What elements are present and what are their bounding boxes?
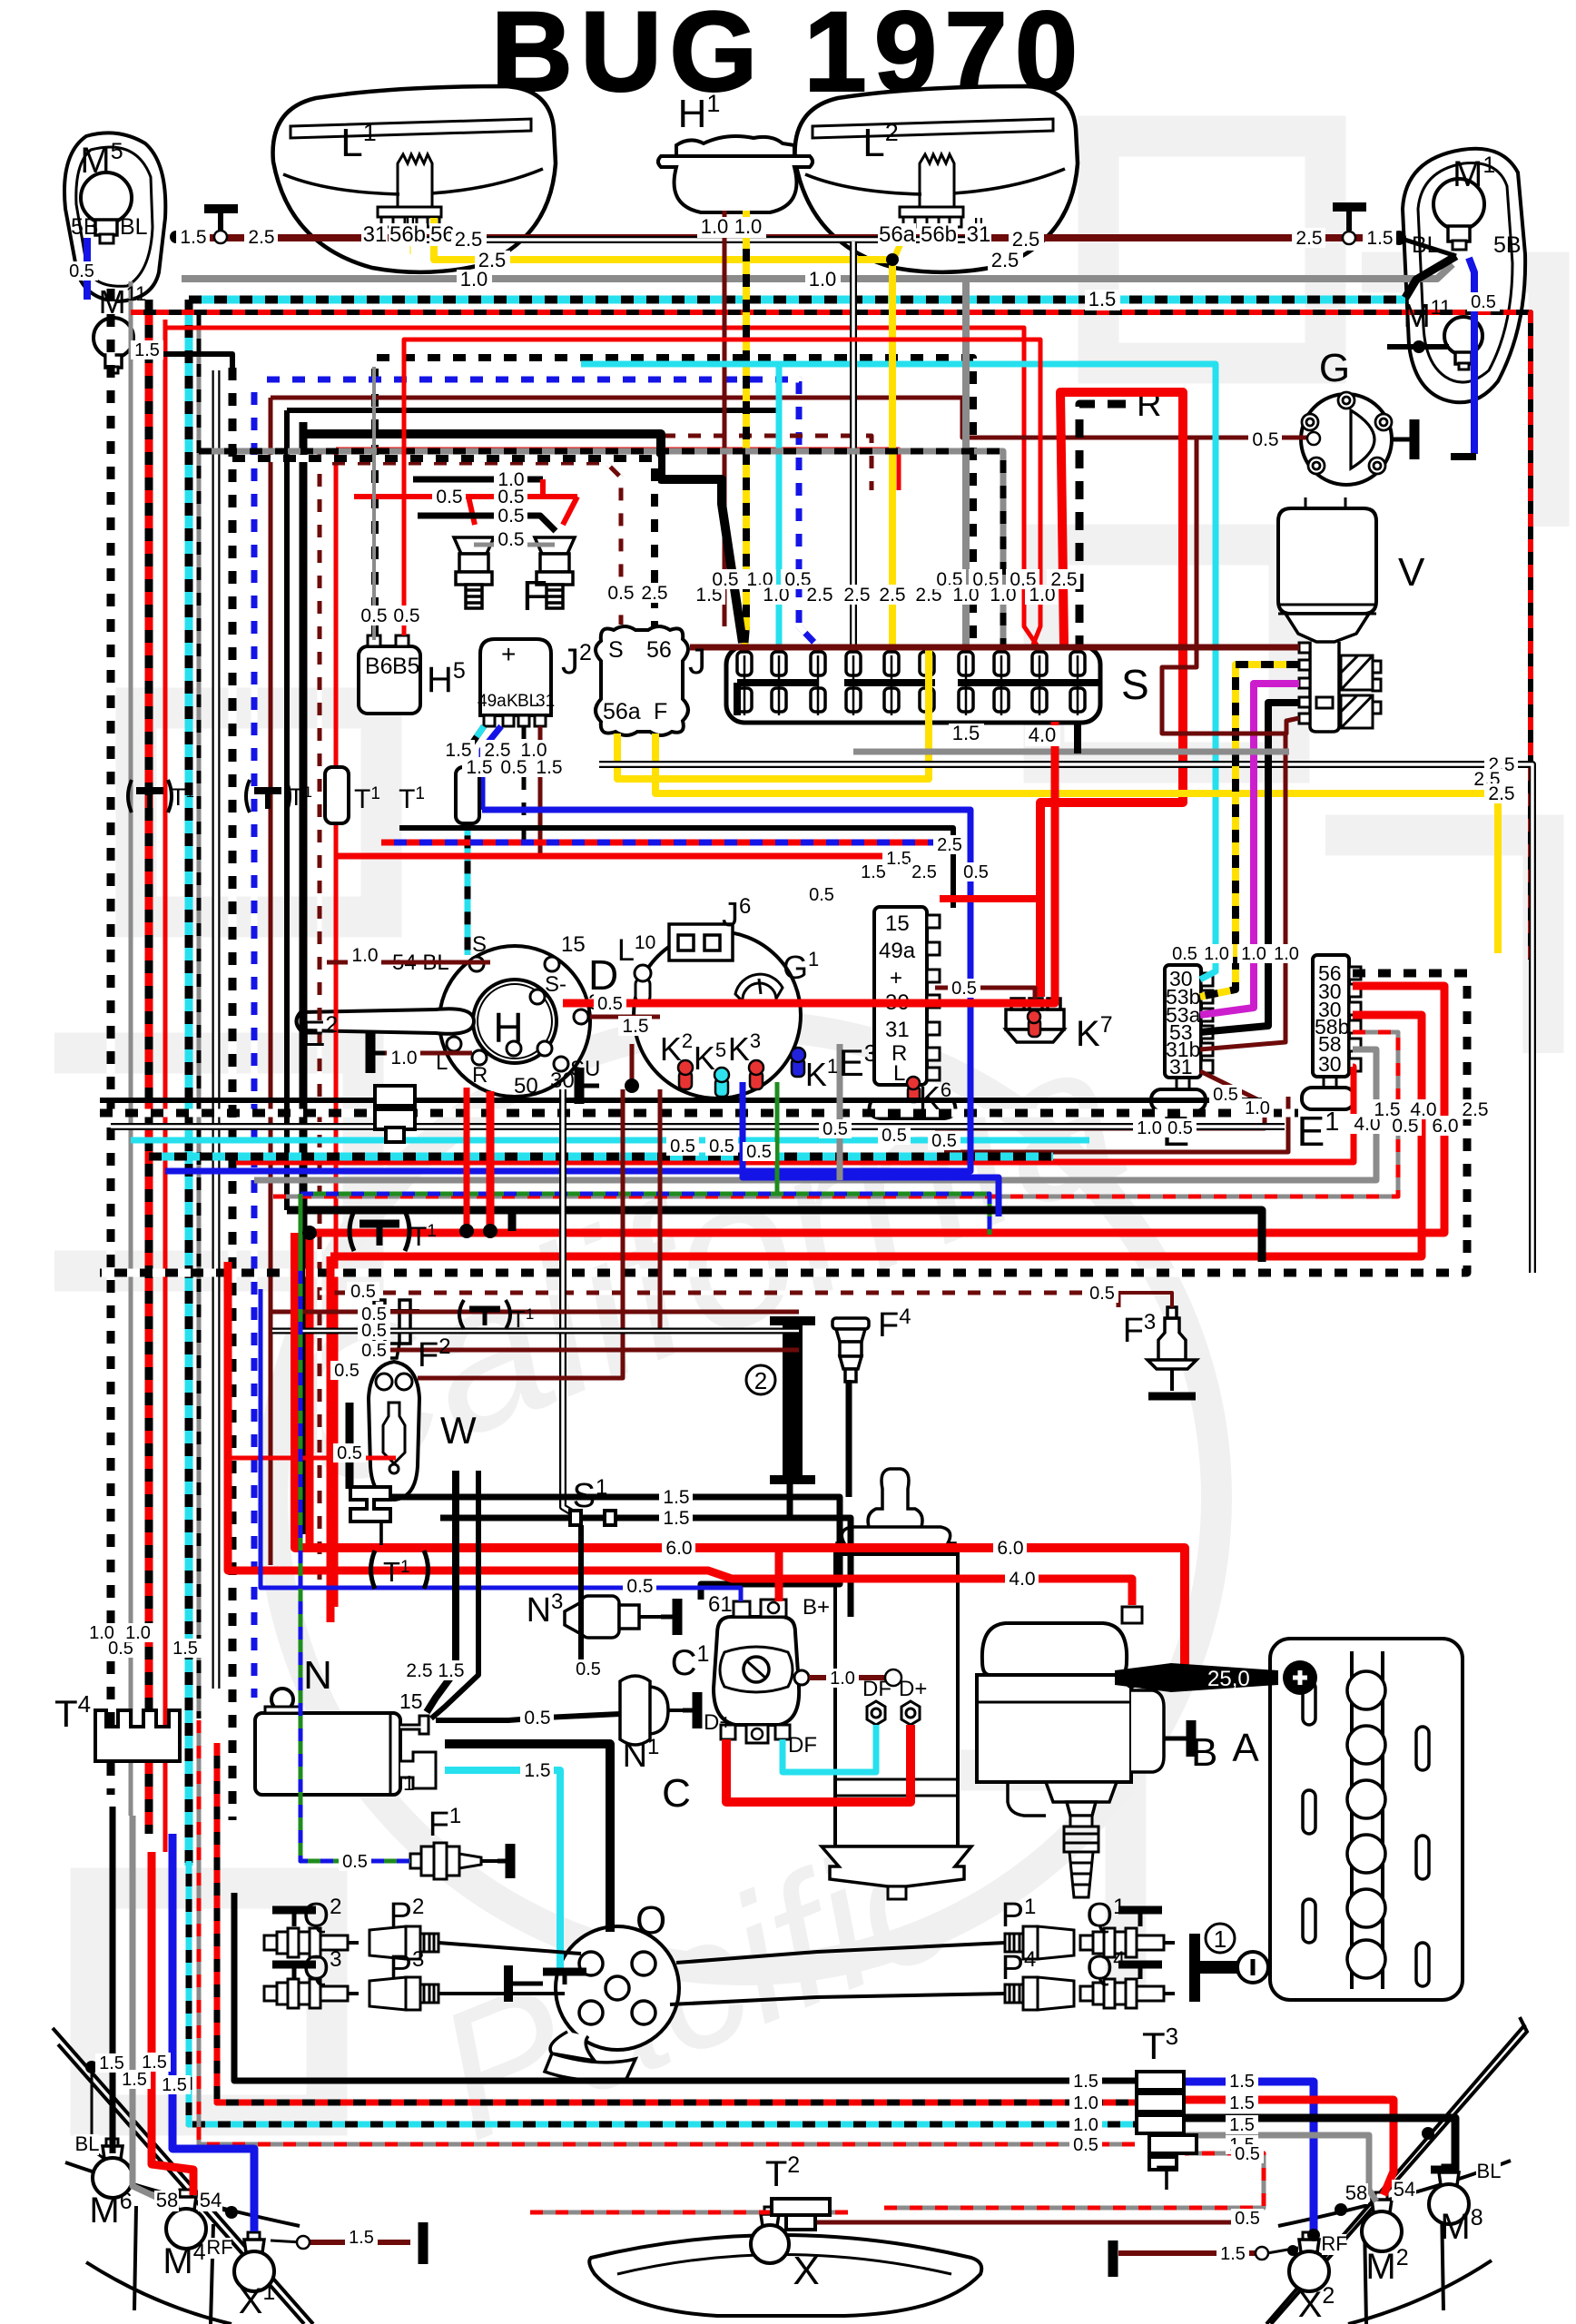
svg-text:RF: RF xyxy=(206,2236,232,2259)
svg-text:N: N xyxy=(303,1653,332,1698)
turn signal M5 housing xyxy=(64,133,165,301)
wire maroon lever E2 xyxy=(385,1051,472,1056)
svg-text:1.0: 1.0 xyxy=(1073,2093,1098,2113)
svg-text:2.5: 2.5 xyxy=(641,583,667,604)
wire red trunk left 2 xyxy=(334,449,339,1607)
generator terminals DF D+ xyxy=(867,1701,920,1725)
washer valve W xyxy=(369,1362,419,1500)
svg-text:1.5: 1.5 xyxy=(438,1660,464,1681)
svg-text:S: S xyxy=(472,932,487,957)
wire cyan/black trunk left xyxy=(185,300,193,1866)
svg-text:BL: BL xyxy=(1477,2160,1502,2182)
wire gray trunk left xyxy=(129,281,133,1816)
wire black M11 bottom hook xyxy=(1451,453,1476,460)
wire gray from G1 gauge xyxy=(837,1044,843,1180)
wire cyan C1 DF to C DF xyxy=(783,1725,876,1772)
wire maroon bottom right ground xyxy=(1118,2250,1258,2256)
svg-text:2.5: 2.5 xyxy=(248,227,274,248)
wire black S1 run 1.5 xyxy=(440,1518,851,1617)
svg-text:56b: 56b xyxy=(389,222,426,247)
svg-text:30: 30 xyxy=(1318,1052,1342,1076)
wire maroon from E 31 b xyxy=(944,1097,1288,1152)
oil pressure switch F1 xyxy=(410,1843,497,1879)
wire maroon to F2 area xyxy=(271,1310,799,1315)
svg-text:F: F xyxy=(522,572,547,619)
left rear fender outline xyxy=(53,2028,313,2324)
svg-text:1.0: 1.0 xyxy=(1241,944,1266,964)
svg-text:2.5: 2.5 xyxy=(1012,228,1040,251)
wire yellow from J 56a down xyxy=(617,648,929,779)
wire maroon G to V pin5 xyxy=(1162,438,1299,734)
svg-text:0.5: 0.5 xyxy=(69,261,94,281)
svg-text:1.5: 1.5 xyxy=(1088,288,1117,310)
wire gray jumper between F switches xyxy=(474,543,555,547)
svg-text:2.5: 2.5 xyxy=(406,1660,432,1681)
ignition light switch D with H xyxy=(439,946,590,1097)
turn signal M1 housing xyxy=(1403,149,1525,403)
wire white mid band xyxy=(111,1123,1285,1130)
wire black coil HT to distributor xyxy=(445,1744,610,1932)
svg-text:2.5: 2.5 xyxy=(937,835,962,855)
wire red rear right xyxy=(1185,2100,1394,2195)
svg-text:0.5: 0.5 xyxy=(342,1852,368,1872)
wire white from switch SU xyxy=(563,1089,581,1518)
svg-text:1.5: 1.5 xyxy=(663,1487,689,1508)
lever E2 xyxy=(297,1009,475,1034)
svg-text:0.5: 0.5 xyxy=(1213,1085,1238,1105)
svg-text:B: B xyxy=(1191,1730,1217,1775)
distributor O xyxy=(545,1926,679,2081)
bulb M4 tail light xyxy=(166,2190,206,2249)
junction dot fuse feed xyxy=(886,253,899,266)
svg-text:DF: DF xyxy=(788,1733,817,1758)
svg-text:0.5: 0.5 xyxy=(360,606,387,626)
svg-text:D+: D+ xyxy=(704,1710,732,1735)
svg-text:31: 31 xyxy=(363,222,388,247)
wire black mid band xyxy=(100,1098,1262,1103)
wire black/white upper nest xyxy=(375,358,973,648)
svg-text:1.0: 1.0 xyxy=(1204,944,1229,964)
wire red band from trunk xyxy=(336,853,908,860)
svg-text:15: 15 xyxy=(561,932,586,957)
wire blue/red band xyxy=(381,840,935,846)
svg-text:56a: 56a xyxy=(603,699,641,724)
wire blue to X1 RF xyxy=(172,1834,254,2231)
svg-text:6.0: 6.0 xyxy=(665,1538,692,1559)
svg-text:0.5: 0.5 xyxy=(497,487,524,507)
svg-text:31: 31 xyxy=(885,1018,910,1042)
wire red/black trunk left xyxy=(145,300,153,1834)
wire gray/black to fuse 8 xyxy=(199,451,1003,648)
connector S1 xyxy=(570,1511,616,1525)
wire plug lead P2 to O xyxy=(438,1943,581,1954)
connector T1 a xyxy=(128,780,194,812)
svg-text:C: C xyxy=(662,1771,691,1816)
wire white drop to fuse 4 xyxy=(850,241,857,648)
bulb M11 left xyxy=(94,318,133,373)
svg-text:31: 31 xyxy=(967,222,991,247)
svg-text:+: + xyxy=(501,640,516,668)
wire red F cluster xyxy=(354,494,577,499)
svg-text:31: 31 xyxy=(536,692,555,711)
label circled 1 xyxy=(1206,1924,1235,1953)
svg-text:0.5: 0.5 xyxy=(931,1131,957,1151)
wire black/white to J 56 xyxy=(232,458,655,626)
svg-text:54: 54 xyxy=(200,2189,222,2211)
wire black/cyan rear run xyxy=(189,1861,1135,2124)
wire red top run xyxy=(165,328,1038,646)
svg-text:D: D xyxy=(588,951,618,999)
svg-text:2.5: 2.5 xyxy=(991,249,1019,271)
spark plug Q3 xyxy=(264,1979,359,2008)
svg-text:49a: 49a xyxy=(879,939,916,963)
ground N3 xyxy=(661,1599,677,1635)
connector T3 xyxy=(1137,2072,1197,2170)
wire white F2 row xyxy=(272,1328,799,1334)
svg-text:B6: B6 xyxy=(365,654,393,679)
svg-text:1.5: 1.5 xyxy=(1073,2072,1098,2092)
wire blue M5 xyxy=(84,238,91,300)
ground bar rear left xyxy=(419,2222,428,2264)
svg-text:F: F xyxy=(654,699,667,724)
svg-text:1.5: 1.5 xyxy=(536,757,562,778)
vacuum unit N1 xyxy=(620,1676,683,1745)
svg-text:0.5: 0.5 xyxy=(1167,1118,1193,1138)
wire black M1 junction stub xyxy=(1399,238,1456,256)
connector T1 b xyxy=(246,780,312,812)
svg-text:1.5: 1.5 xyxy=(1366,228,1393,249)
wire blue stripe on green F1 xyxy=(300,1271,410,1861)
svg-text:0.5: 0.5 xyxy=(1073,2135,1098,2155)
svg-text:1.0: 1.0 xyxy=(460,268,488,290)
wire yellow from J F down xyxy=(655,734,1498,953)
battery cable 25.0 xyxy=(1115,1663,1278,1692)
svg-text:S-: S- xyxy=(545,972,566,997)
wire black rear run xyxy=(234,1893,1135,2081)
wire maroon to F3 xyxy=(1118,1293,1172,1307)
fuse holder F2 xyxy=(365,1300,419,1358)
svg-text:H: H xyxy=(493,1004,523,1051)
voltage regulator C1 xyxy=(714,1600,809,1743)
wire black elbow to T1 xyxy=(508,1210,517,1231)
bulb F3 xyxy=(1148,1307,1197,1391)
svg-text:2.5: 2.5 xyxy=(1050,569,1077,590)
wire thin M4 54 xyxy=(202,2204,231,2212)
svg-text:0.5: 0.5 xyxy=(576,1659,601,1679)
spark plug Q2 xyxy=(264,1928,359,1957)
svg-text:1.5: 1.5 xyxy=(1229,2072,1255,2092)
wire red from switch 50 xyxy=(464,1088,470,1231)
wire maroon X1 ground xyxy=(309,2240,410,2245)
wire black from capacitor xyxy=(787,1482,793,1518)
wire cyan long run to E 30 xyxy=(581,364,1216,980)
plug connector P1 xyxy=(1005,1926,1074,1959)
wire gray under fuse box xyxy=(853,749,1289,755)
wire red thick fuse10 to K7 xyxy=(1040,392,1183,997)
wire black to coil 15 a xyxy=(427,1471,456,1712)
connector T4 xyxy=(95,1710,180,1761)
svg-text:49a: 49a xyxy=(478,692,507,711)
svg-text:1.0: 1.0 xyxy=(390,1048,417,1068)
svg-text:56a: 56a xyxy=(879,222,916,247)
svg-text:4.0: 4.0 xyxy=(1029,724,1057,746)
generator C xyxy=(822,1469,971,1899)
ground K cluster xyxy=(579,1068,599,1104)
ground starter xyxy=(1164,1720,1191,1757)
wire gray/red from T2 east xyxy=(884,2153,1264,2208)
ground G sender xyxy=(1392,419,1414,459)
label circled 2 xyxy=(746,1365,775,1394)
svg-text:0.5: 0.5 xyxy=(607,583,634,604)
connector T1 on white wire xyxy=(459,1300,534,1333)
wire blue 0.5 to C1 61 xyxy=(261,1289,741,1601)
svg-text:58: 58 xyxy=(1345,2181,1367,2204)
svg-text:2.5: 2.5 xyxy=(1488,783,1514,804)
svg-text:0.5: 0.5 xyxy=(1252,429,1278,450)
svg-text:0.5: 0.5 xyxy=(361,1305,387,1324)
lamp K6 xyxy=(907,1077,920,1102)
wire black/white trunk left 2 xyxy=(229,368,237,1820)
svg-text:2.5: 2.5 xyxy=(1295,228,1322,249)
wire gray E1 58 loop xyxy=(254,1049,1376,1180)
svg-text:0.5: 0.5 xyxy=(626,1576,653,1597)
svg-text:0.5: 0.5 xyxy=(350,1282,376,1302)
wire red drop to C1 B+ xyxy=(775,1548,783,1601)
wire black row F xyxy=(418,516,556,531)
wire thin BL M6 xyxy=(92,2067,104,2159)
bulb M11 right xyxy=(1444,317,1482,369)
svg-text:1.5: 1.5 xyxy=(622,1016,648,1037)
svg-text:S: S xyxy=(608,637,624,663)
svg-text:2: 2 xyxy=(754,1367,767,1394)
svg-text:1.0: 1.0 xyxy=(701,215,729,238)
labels L1 terminals xyxy=(361,222,388,247)
wire maroon K cluster down b xyxy=(508,1089,660,1330)
svg-text:0.5: 0.5 xyxy=(436,487,462,507)
wire maroon bottom right a xyxy=(799,2221,1251,2225)
fuse box S xyxy=(726,646,1100,723)
svg-text:0.5: 0.5 xyxy=(746,1142,772,1162)
wire maroon from J2 31 xyxy=(538,726,543,858)
svg-text:2.5: 2.5 xyxy=(455,228,483,251)
ground F1 xyxy=(497,1844,510,1878)
bulb X2 license light xyxy=(1289,2232,1329,2291)
wire maroon K cluster down a xyxy=(418,1089,623,1378)
wire black thick to fuse 1 xyxy=(303,434,743,643)
svg-text:25,0: 25,0 xyxy=(1207,1667,1250,1691)
wire black mid band 2 xyxy=(287,1210,1262,1262)
wire thin black from RF left xyxy=(271,2240,301,2242)
svg-text:5B: 5B xyxy=(1493,232,1522,258)
wire blue from K5 xyxy=(743,1082,999,1216)
svg-text:2.5: 2.5 xyxy=(843,585,870,606)
wire red to M4 54 xyxy=(152,1852,193,2195)
wire maroon/white trunk left xyxy=(318,436,322,1589)
svg-text:T: T xyxy=(1156,2160,1177,2198)
junction dots right fender xyxy=(1422,2127,1434,2140)
svg-text:1: 1 xyxy=(403,1771,415,1795)
junction dot M1 xyxy=(1392,231,1406,245)
svg-text:0.5: 0.5 xyxy=(361,1341,387,1361)
svg-text:1.5: 1.5 xyxy=(122,2070,147,2090)
wire gray to M4 xyxy=(133,1816,175,2206)
plug connector P3 xyxy=(369,1977,438,2010)
wire red elbow F xyxy=(540,479,546,497)
ground bar F3 xyxy=(1148,1393,1196,1401)
bulb M8 tail light xyxy=(1429,2165,1469,2224)
junction dot red 4.0 xyxy=(459,1224,474,1238)
svg-text:50: 50 xyxy=(514,1074,538,1098)
svg-text:56: 56 xyxy=(646,637,672,663)
svg-text:1.5: 1.5 xyxy=(886,849,911,869)
battery ground strap 1 xyxy=(1200,1961,1270,1974)
ground bar rear right xyxy=(1108,2240,1118,2277)
svg-text:58: 58 xyxy=(156,2189,178,2211)
svg-text:1.0: 1.0 xyxy=(351,945,378,966)
wire black/white trunk left 1 xyxy=(107,289,115,1795)
base E3 xyxy=(870,1100,956,1118)
relay H5 xyxy=(359,635,420,714)
wire blue mid band xyxy=(165,950,970,1171)
svg-text:R: R xyxy=(472,1063,488,1088)
svg-text:BL: BL xyxy=(120,214,148,240)
wire black/red rear run xyxy=(217,1743,1135,2102)
base E1 xyxy=(1302,1077,1354,1109)
ground Q2 xyxy=(272,1910,316,1926)
svg-text:1.0: 1.0 xyxy=(1137,1118,1162,1138)
wire red trunk left xyxy=(163,320,168,1852)
wire maroon trunk left xyxy=(269,398,273,1565)
wire maroon K cluster junction xyxy=(630,1044,635,1086)
wire black M11 left xyxy=(136,354,232,368)
svg-text:0.5: 0.5 xyxy=(709,1137,734,1157)
horn H1 xyxy=(658,136,813,212)
wire black T run 1.5 xyxy=(389,1497,840,1600)
svg-text:1.5: 1.5 xyxy=(861,862,886,882)
svg-text:61: 61 xyxy=(708,1592,733,1617)
wire gray H5 B6 up xyxy=(372,367,376,640)
wire red E3 spur xyxy=(940,895,1040,902)
svg-text:1.5: 1.5 xyxy=(180,227,206,248)
wire gray top run xyxy=(182,264,1453,279)
wire gray/black trunk left xyxy=(197,313,202,1718)
fuse F4 xyxy=(832,1318,869,1382)
wire black upper nest 1 xyxy=(287,410,779,648)
wire black trunk left 2 xyxy=(300,422,308,1534)
svg-text:0.5: 0.5 xyxy=(963,862,989,882)
wire red from switch 30 xyxy=(487,1091,495,1231)
wire maroon/white to J S xyxy=(320,463,621,625)
junction dot M5 xyxy=(170,231,182,243)
svg-text:G: G xyxy=(1319,346,1350,390)
wire black M1 xyxy=(1405,256,1456,298)
svg-text:30: 30 xyxy=(550,1068,575,1093)
lamp L10 xyxy=(635,965,651,1002)
svg-text:1.5: 1.5 xyxy=(134,340,160,360)
svg-text:6.0: 6.0 xyxy=(997,1538,1023,1559)
wiper motor V xyxy=(1278,497,1381,732)
fuel gauge sender G xyxy=(1301,392,1392,485)
wire plug lead O to P1 xyxy=(676,1943,1005,1963)
wire black trunk left 1 xyxy=(284,410,290,1210)
wire gray/red to T2 xyxy=(530,2211,848,2215)
connector T top left xyxy=(204,209,238,232)
wire black/red top run xyxy=(131,312,1531,960)
svg-text:31: 31 xyxy=(1169,1055,1193,1078)
svg-text:0.5: 0.5 xyxy=(497,506,524,527)
wire yellow/black V to E 53b xyxy=(1200,665,1299,997)
svg-text:15: 15 xyxy=(399,1689,423,1713)
svg-text:0.5: 0.5 xyxy=(393,606,419,626)
connector T top right xyxy=(1333,207,1366,231)
svg-text:0.5: 0.5 xyxy=(334,1361,360,1381)
svg-text:O: O xyxy=(635,1898,666,1943)
svg-text:0.5: 0.5 xyxy=(951,979,977,999)
wire yellow top run 56a xyxy=(434,218,892,260)
wire gray/red E1 58b loop xyxy=(272,1032,1398,1196)
wire gray/red rear run xyxy=(199,1720,1135,2144)
svg-text:+: + xyxy=(890,966,902,990)
svg-text:4.0: 4.0 xyxy=(1009,1569,1035,1590)
wire plug lead O to P4 xyxy=(670,1994,1005,2004)
svg-text:2.5: 2.5 xyxy=(806,585,832,606)
wire gray drop to fuse 7 xyxy=(962,279,970,648)
wire cyan coil 1 to distributor xyxy=(445,1770,560,1968)
svg-text:RF: RF xyxy=(1321,2232,1347,2255)
wire red E1 30b big loop xyxy=(330,1015,1422,1256)
wire red E1 30a big loop xyxy=(310,986,1444,1233)
points tick distributor xyxy=(543,1972,586,1984)
svg-text:0.5: 0.5 xyxy=(337,1443,362,1463)
svg-text:1.5: 1.5 xyxy=(349,2228,374,2248)
svg-text:A: A xyxy=(1232,1726,1259,1770)
connector T mid band xyxy=(375,1086,415,1142)
svg-text:0.5: 0.5 xyxy=(1172,944,1197,964)
wire black from F4 down xyxy=(846,1380,852,1497)
bulb M1 xyxy=(1433,179,1484,250)
connector T1 c xyxy=(325,767,380,823)
connector T lower left xyxy=(350,1487,390,1521)
svg-text:1.0: 1.0 xyxy=(830,1669,855,1689)
junction dot red 6.0 xyxy=(294,1547,296,1549)
svg-text:X: X xyxy=(793,2249,819,2293)
svg-text:V: V xyxy=(1398,550,1425,595)
wire red diag F b xyxy=(563,497,577,525)
wire cyan mid band xyxy=(131,1137,1089,1144)
svg-text:1.0: 1.0 xyxy=(125,1623,151,1643)
svg-text:0.5: 0.5 xyxy=(1235,2209,1260,2229)
license plate light X xyxy=(589,2235,981,2316)
svg-text:1: 1 xyxy=(1214,1925,1226,1953)
wire maroon under F2 xyxy=(381,1348,799,1353)
svg-text:0.5: 0.5 xyxy=(597,994,623,1014)
wire yellow drop to fuse 5 xyxy=(889,261,896,648)
connector T1 on red 4.0 xyxy=(350,1211,437,1252)
wire maroon switch 31 east xyxy=(590,1015,660,1019)
svg-text:1.5: 1.5 xyxy=(172,1639,198,1659)
svg-text:0.5: 0.5 xyxy=(712,569,738,590)
svg-text:1.5: 1.5 xyxy=(952,722,980,744)
junction dot M11 right xyxy=(1413,340,1425,353)
bulb X license xyxy=(751,2207,789,2263)
wire black rear right xyxy=(1185,2118,1455,2170)
wire red diag F a xyxy=(468,497,475,525)
connector T1 on red to starter xyxy=(371,1551,428,1589)
wire yellow L2 56a stub xyxy=(895,229,907,256)
svg-text:1.5: 1.5 xyxy=(1220,2244,1246,2264)
ground Q3 xyxy=(272,1965,316,1979)
ground Q4 xyxy=(1118,1965,1162,1979)
